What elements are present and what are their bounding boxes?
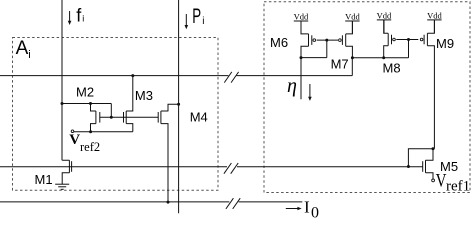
- svg-text:Vdd: Vdd: [294, 12, 309, 22]
- svg-text:Vdd: Vdd: [377, 11, 392, 21]
- svg-text:M3: M3: [135, 88, 153, 103]
- svg-text:i: i: [82, 14, 84, 24]
- svg-text:M9: M9: [436, 36, 454, 51]
- svg-text:ref2: ref2: [80, 140, 100, 154]
- svg-text:P: P: [192, 4, 201, 28]
- svg-text:A: A: [16, 38, 29, 59]
- svg-text:M2: M2: [76, 85, 94, 100]
- svg-text:M1: M1: [35, 172, 53, 187]
- svg-text:0: 0: [311, 205, 319, 222]
- svg-text:i: i: [28, 49, 30, 61]
- svg-text:M7: M7: [331, 57, 349, 72]
- svg-text:ref1: ref1: [446, 178, 470, 194]
- svg-text:V: V: [69, 132, 80, 148]
- svg-text:Vdd: Vdd: [427, 11, 442, 21]
- svg-text:M6: M6: [270, 35, 288, 50]
- svg-text:M4: M4: [190, 110, 208, 125]
- svg-text:M8: M8: [383, 60, 401, 75]
- svg-text:I: I: [304, 197, 310, 216]
- svg-text:η: η: [287, 75, 297, 97]
- svg-text:Vdd: Vdd: [345, 12, 360, 22]
- svg-text:i: i: [202, 16, 204, 27]
